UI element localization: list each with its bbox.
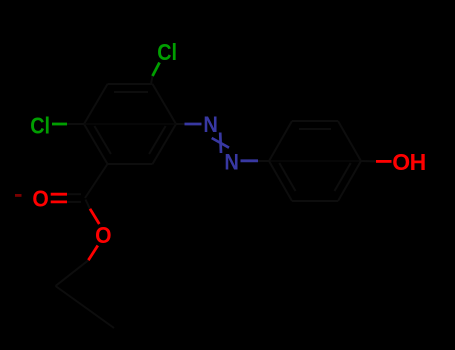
bond ring A to Cl-4 green half: [153, 63, 160, 77]
faint row artifact across ring A at y=124: [68, 123, 184, 125]
benzene ring B inner double bond right: [335, 163, 351, 191]
bond N2 to ring B dark half: [258, 160, 269, 162]
bond ring A to N1 dark half: [176, 123, 186, 125]
benzene ring B edge TL-TR: [292, 120, 338, 122]
benzene ring B edge BR-BL: [292, 200, 338, 202]
bond ring B to OH red half: [376, 160, 392, 163]
svg-text:N: N: [203, 112, 218, 137]
azo N=N stroke vertical: [219, 133, 223, 154]
azo N=N stroke diagonal: [212, 138, 229, 148]
svg-text:Cl: Cl: [157, 39, 177, 65]
svg-text:Cl: Cl: [30, 112, 50, 138]
svg-text:O: O: [32, 186, 48, 212]
benzene ring A inner double bond top: [114, 91, 148, 93]
benzene ring B inner double bond top: [299, 128, 331, 130]
svg-text:H: H: [410, 149, 427, 175]
benzene ring A edge R-BR: [153, 124, 177, 164]
benzene ring A edge BL-L: [84, 124, 108, 164]
bond ring B to OH dark half: [361, 160, 376, 162]
faint row artifact across ring B at y=161: [259, 160, 375, 162]
bond carbonyl C to ester O red half: [90, 209, 99, 224]
benzene ring B edge BL-L: [269, 161, 292, 201]
bond ring A to N1 blue half: [185, 123, 202, 126]
carbonyl C=O lower line red half: [51, 200, 67, 203]
bond CH2 to CH3: [56, 286, 115, 328]
benzene ring B edge L-TL: [269, 121, 292, 161]
bond ring A to Cl-4 dark half: [151, 76, 153, 84]
benzene ring B inner double bond left: [279, 163, 295, 191]
carbonyl C=O upper line dark half: [67, 193, 81, 195]
benzene ring A inner double bond left: [94, 126, 111, 154]
bond ester O to CH2 dark half: [56, 260, 89, 286]
bond ring A to carbonyl C: [85, 164, 108, 198]
benzene ring A edge TL-TR: [108, 83, 153, 85]
benzene ring B edge TR-R: [338, 121, 361, 161]
bond ring A to Cl-2 dark half: [67, 123, 84, 125]
bond ester O to CH2 red half: [88, 246, 98, 261]
benzene ring A edge L-TL: [84, 84, 108, 124]
svg-text:N: N: [224, 149, 239, 174]
bond N2 to ring B blue half: [241, 159, 259, 162]
benzene ring A edge TR-R: [153, 84, 177, 124]
benzene ring A edge BR-BL: [108, 163, 153, 165]
svg-text:O: O: [392, 149, 410, 175]
benzene ring B edge R-BR: [338, 161, 361, 201]
bond ring A to Cl-2 green half: [52, 123, 67, 126]
bond carbonyl C to ester O dark half: [86, 200, 91, 210]
stray dim red dash left of carbonyl O: [15, 194, 22, 197]
benzene ring A inner double bond right: [149, 126, 166, 154]
carbonyl C=O upper line red half: [51, 193, 67, 196]
svg-text:O: O: [95, 222, 111, 248]
carbonyl C=O lower line dark half: [67, 201, 81, 203]
